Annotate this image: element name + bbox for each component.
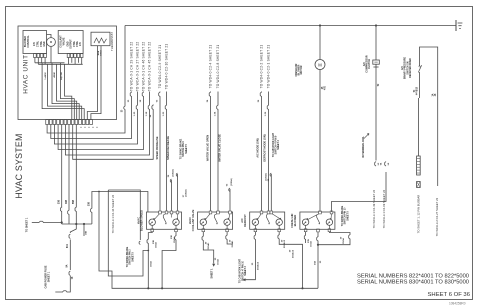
wire from connector to riser 44 xyxy=(73,105,154,160)
svg-text:SHEET 3: SHEET 3 xyxy=(278,139,280,149)
svg-text:1-58: 1-58 xyxy=(146,111,148,116)
svg-text:SWITCH PIN 10: SWITCH PIN 10 xyxy=(345,207,347,224)
svg-text:TO WD4-0 C2-9 SHEET 21: TO WD4-0 C2-9 SHEET 21 xyxy=(158,45,162,89)
svg-text:SHEET 6 OF 36: SHEET 6 OF 36 xyxy=(428,292,471,298)
HVAC unit enclosure box xyxy=(18,26,117,120)
svg-text:COOLANT VALVE: COOLANT VALVE xyxy=(191,209,195,231)
ac compressor clutch branch wire xyxy=(375,24,377,26)
hook label 08 33GA xyxy=(229,188,231,191)
motor lead xyxy=(50,46,52,62)
svg-text:WATER VALVE OPEN: WATER VALVE OPEN xyxy=(206,135,210,161)
coolant valve pins xyxy=(67,54,70,58)
fresh air blower motor xyxy=(315,60,325,70)
wire 24V feeder from connector to top bus xyxy=(47,26,125,134)
switch FRESH AIR BLOWER xyxy=(300,212,335,229)
svg-text:TO WCA-3-2 C2-27 SHEET 23: TO WCA-3-2 C2-27 SHEET 23 xyxy=(435,197,439,236)
svg-text:35GA1: 35GA1 xyxy=(231,240,234,248)
riser TO WCA-3-1 C2-46 xyxy=(108,190,148,276)
switch pins xyxy=(209,211,212,214)
svg-text:SWITCH ON: SWITCH ON xyxy=(407,61,409,74)
svg-text:30B: 30B xyxy=(89,202,91,207)
busbar terminal block xyxy=(417,182,421,188)
fresh air switch right pole wire xyxy=(318,232,350,245)
connector to WCA-3-1 C2-49 xyxy=(375,162,377,166)
svg-text:DEFROST: DEFROST xyxy=(243,214,247,227)
svg-text:(33GA): (33GA) xyxy=(230,178,233,185)
switch HVAC BLOWER SPEED xyxy=(147,212,182,229)
svg-text:24V: 24V xyxy=(33,41,36,46)
svg-text:SHEET 5: SHEET 5 xyxy=(132,251,134,261)
thermostat xyxy=(91,32,110,46)
blower control module xyxy=(23,31,47,54)
svg-text:(33GA): (33GA) xyxy=(185,189,188,196)
svg-text:TO SHEET 1: TO SHEET 1 xyxy=(25,217,28,232)
wire swing brake pin 2 xyxy=(108,190,140,240)
svg-text:HVAC UNIT: HVAC UNIT xyxy=(23,54,30,93)
stub wire xyxy=(83,224,85,236)
svg-text:TO CAB WORK LIGHT: TO CAB WORK LIGHT xyxy=(272,132,275,157)
coolant switch right pole wire xyxy=(227,232,232,244)
fresh air blower motor branch wire xyxy=(319,24,321,26)
svg-text:TO SWING BRAKE: TO SWING BRAKE xyxy=(180,138,183,159)
svg-text:TO WCA-3-1 CH 46 SHEET 22: TO WCA-3-1 CH 46 SHEET 22 xyxy=(141,42,145,92)
defrost switch right pole wire xyxy=(279,232,302,289)
svg-text:1-30: 1-30 xyxy=(134,111,136,116)
wire consolidation rails under modules xyxy=(35,62,65,64)
switch pins xyxy=(260,211,263,214)
svg-text:TO WD4-0 C2-10 SHEET 21: TO WD4-0 C2-10 SHEET 21 xyxy=(164,44,168,90)
switch HVAC COOLANT VALVE xyxy=(198,212,233,229)
wire clutch down to connector xyxy=(375,67,377,161)
svg-text:47D: 47D xyxy=(323,86,326,91)
wire 30B branch from switch area xyxy=(92,192,148,225)
svg-text:SPEED DECREASE: SPEED DECREASE xyxy=(166,136,170,160)
svg-text:SHEET 5: SHEET 5 xyxy=(186,143,188,153)
svg-text:SERIAL NUMBERS 822*4001 TO 822: SERIAL NUMBERS 822*4001 TO 822*5000 xyxy=(357,273,469,279)
svg-text:35GA12: 35GA12 xyxy=(256,261,259,270)
wire motor to switch xyxy=(319,70,321,213)
riser water valve open wire xyxy=(210,92,212,213)
svg-text:35GA: 35GA xyxy=(150,261,153,267)
svg-text:SWITCH PIN 2: SWITCH PIN 2 xyxy=(130,249,132,265)
svg-text:GND: GND xyxy=(44,41,46,46)
ground symbol at bus end xyxy=(455,20,457,31)
svg-text:SHEET 1: SHEET 1 xyxy=(47,271,50,282)
riser ac mode wire xyxy=(261,92,263,213)
wire to cab power fuse xyxy=(70,224,76,233)
svg-text:44YB10: 44YB10 xyxy=(416,86,419,95)
spare pin dots xyxy=(80,127,81,128)
svg-text:SERIAL NUMBERS 830*4001 TO 830: SERIAL NUMBERS 830*4001 TO 830*5000 xyxy=(357,280,469,286)
svg-text:TO WCA-3-1 CH 27 SHEET 22: TO WCA-3-1 CH 27 SHEET 22 xyxy=(135,42,139,92)
merge bus xyxy=(62,223,92,225)
svg-text:TO WCA-3-1 CH 29 SHEET 22: TO WCA-3-1 CH 29 SHEET 22 xyxy=(129,42,133,92)
svg-text:CONTROL: CONTROL xyxy=(27,35,30,48)
svg-text:CLUTCH: CLUTCH xyxy=(368,59,371,69)
svg-text:30B: 30B xyxy=(59,200,61,205)
switch pins xyxy=(319,211,322,214)
riser water valve close wire xyxy=(217,92,219,213)
svg-text:TO WCA-3-1 C2-69 SHEET 22: TO WCA-3-1 C2-69 SHEET 22 xyxy=(382,189,386,228)
svg-text:HVAC SYSTEM: HVAC SYSTEM xyxy=(14,133,24,198)
terminal rail busbar xyxy=(417,156,421,175)
svg-text:BINARY PRESSURE: BINARY PRESSURE xyxy=(404,57,407,79)
hook label 06 33GA xyxy=(171,179,173,182)
svg-text:TO WCA-3-1 C2-46 SHEET 22: TO WCA-3-1 C2-46 SHEET 22 xyxy=(111,194,115,233)
coolant switch left pole wire xyxy=(203,232,213,264)
hook and label 30 on feeder xyxy=(124,106,126,109)
wire from connector to riser TO WCA-3-1 CH 45 SHEET 22 xyxy=(65,92,149,156)
svg-text:1-06: 1-06 xyxy=(265,111,267,116)
connector hook 1-58 xyxy=(149,105,151,109)
svg-text:35GA12: 35GA12 xyxy=(291,249,294,258)
svg-text:44|C3M: 44|C3M xyxy=(60,72,63,80)
svg-text:TO WCA-3-1 CH 45 SHEET 22: TO WCA-3-1 CH 45 SHEET 22 xyxy=(147,42,151,92)
blower switch right pole wire xyxy=(162,232,176,289)
switch A/C DEFROST xyxy=(250,212,285,229)
svg-text:OUTPUT: OUTPUT xyxy=(71,39,73,49)
svg-text:SWITCH PIN 9: SWITCH PIN 9 xyxy=(183,141,185,157)
svg-text:TO SWING BRAKE: TO SWING BRAKE xyxy=(341,205,344,226)
svg-text:1084258R0: 1084258R0 xyxy=(449,302,466,306)
svg-text:CTRL: CTRL xyxy=(41,40,43,47)
svg-text:VALVE: VALVE xyxy=(62,37,65,45)
svg-text:35GA: 35GA xyxy=(173,237,176,243)
svg-text:31GA: 31GA xyxy=(217,259,220,265)
svg-text:35GA1: 35GA1 xyxy=(207,242,210,250)
blower motor xyxy=(47,38,56,47)
pressure switch contact xyxy=(418,65,421,72)
svg-text:IN TERMINAL RAIL: IN TERMINAL RAIL xyxy=(362,136,365,158)
svg-text:58B: 58B xyxy=(73,200,75,205)
long bottom run xyxy=(99,192,318,289)
svg-text:A/C MODE (ON): A/C MODE (ON) xyxy=(255,138,259,157)
svg-text:RECEIVER DRIER: RECEIVER DRIER xyxy=(410,58,412,78)
thermostat wires xyxy=(87,46,97,120)
svg-text:AWM: AWM xyxy=(53,72,56,78)
svg-text:31GA: 31GA xyxy=(310,241,313,247)
svg-text:16B: 16B xyxy=(86,231,88,235)
svg-text:A/C: A/C xyxy=(401,66,404,70)
svg-text:[33GA]: [33GA] xyxy=(264,173,267,180)
wire from connector to riser TO WCA-3-1 CH 46 SHEET 22 xyxy=(58,92,143,150)
svg-text:CTRL: CTRL xyxy=(77,40,79,47)
switch pins xyxy=(159,211,162,214)
top supply bus xyxy=(125,25,456,27)
svg-text:24V: 24V xyxy=(79,41,82,46)
wire from connector to riser TO WCA-3-1 CH 27 SHEET 22 xyxy=(54,92,137,145)
svg-text:SHEET 1: SHEET 1 xyxy=(211,268,214,279)
svg-text:B6A: B6A xyxy=(97,50,100,55)
svg-text:SWITCH #7 PIN 9: SWITCH #7 PIN 9 xyxy=(276,135,278,154)
svg-text:TO CAB WORK LIGHT: TO CAB WORK LIGHT xyxy=(239,258,242,283)
wires from connector row down to fuse area xyxy=(61,125,63,225)
svg-text:TO WD4-0 C2-8 SHEET 21: TO WD4-0 C2-8 SHEET 21 xyxy=(216,45,220,89)
svg-text:09B: 09B xyxy=(66,200,68,205)
fresh air switch center pin wire to bottom run xyxy=(317,229,320,232)
svg-text:TO WD4-0 C2-4 SHEET 21: TO WD4-0 C2-4 SHEET 21 xyxy=(208,45,212,89)
svg-text:24GA: 24GA xyxy=(100,50,103,56)
connector row at HVAC unit bottom xyxy=(46,120,49,125)
svg-text:TO WCA-3-1 C2-49 SHEET 22: TO WCA-3-1 C2-49 SHEET 22 xyxy=(372,189,376,228)
riser defrost mode wire xyxy=(268,92,270,213)
svg-text:SHEET 5: SHEET 5 xyxy=(347,210,349,220)
svg-text:BLOWER: BLOWER xyxy=(293,215,297,227)
svg-text:30A: 30A xyxy=(314,261,317,265)
svg-text:CTRL: CTRL xyxy=(74,40,76,47)
connector hook 30 xyxy=(131,92,133,96)
wire blower switch left pole down xyxy=(148,232,152,289)
svg-text:35GA: 35GA xyxy=(155,242,158,248)
label SHEET 1 with arrow xyxy=(212,264,215,267)
svg-text:SPEED INCREASE: SPEED INCREASE xyxy=(155,136,159,159)
riser speed increase wire xyxy=(159,92,161,213)
svg-text:DEFROST MODE (ON): DEFROST MODE (ON) xyxy=(262,134,266,161)
svg-text:GND: GND xyxy=(67,41,69,46)
svg-text:CTRL: CTRL xyxy=(38,40,40,47)
svg-text:TO WD4-0 C2-1 SHEET 21: TO WD4-0 C2-1 SHEET 21 xyxy=(266,45,270,89)
svg-text:THERMOSTAT: THERMOSTAT xyxy=(110,32,114,51)
connector hook 58 xyxy=(143,92,145,96)
wire bundle to connector row xyxy=(42,63,84,120)
svg-text:WATER VALVE CLOSE: WATER VALVE CLOSE xyxy=(218,134,222,162)
riser speed decrease wire xyxy=(166,92,168,213)
ac compressor clutch xyxy=(373,60,380,64)
svg-text:1-04: 1-04 xyxy=(214,111,217,116)
defrost switch left pole wire xyxy=(246,232,256,280)
svg-text:87A: 87A xyxy=(66,244,69,249)
svg-text:SWITCH #7 PIN 10: SWITCH #7 PIN 10 xyxy=(242,260,244,281)
svg-text:1-05: 1-05 xyxy=(163,111,165,116)
svg-text:M: M xyxy=(318,62,322,67)
svg-text:1A: 1A xyxy=(431,93,434,96)
ac binary pressure switch loop xyxy=(419,72,421,98)
wire from fresh air switch to WCA-3-1 C2-69 xyxy=(332,172,387,212)
svg-text:TO WD4-0 C2-2 SHEET 21: TO WD4-0 C2-2 SHEET 21 xyxy=(259,45,263,89)
svg-text:[33GA]: [33GA] xyxy=(172,169,175,176)
svg-text:35GA12: 35GA12 xyxy=(283,239,286,248)
blower control pins xyxy=(34,54,37,58)
svg-text:SHEET 3: SHEET 3 xyxy=(245,265,247,275)
svg-text:TO SWING BRAKE: TO SWING BRAKE xyxy=(126,246,129,267)
svg-text:TO SHEET 1, 12 PIN BUSBAR: TO SHEET 1, 12 PIN BUSBAR xyxy=(416,195,420,234)
coolant valve module xyxy=(58,31,83,54)
wire from connector to riser TO WCA-3-1 CH 29 SHEET 22 xyxy=(51,92,132,139)
connector hook 1-30 xyxy=(137,105,139,109)
fresh air switch left pole wire xyxy=(305,232,307,243)
svg-text:1-AKW: 1-AKW xyxy=(44,71,47,79)
connector to WCA-3-1 C2-69 xyxy=(385,162,387,166)
svg-text:35GA: 35GA xyxy=(342,238,345,244)
module pin wires xyxy=(34,58,36,63)
svg-text:MOTOR: MOTOR xyxy=(300,65,303,74)
wire pressure switch to busbar xyxy=(418,98,420,156)
svg-text:9A: 9A xyxy=(66,264,69,267)
